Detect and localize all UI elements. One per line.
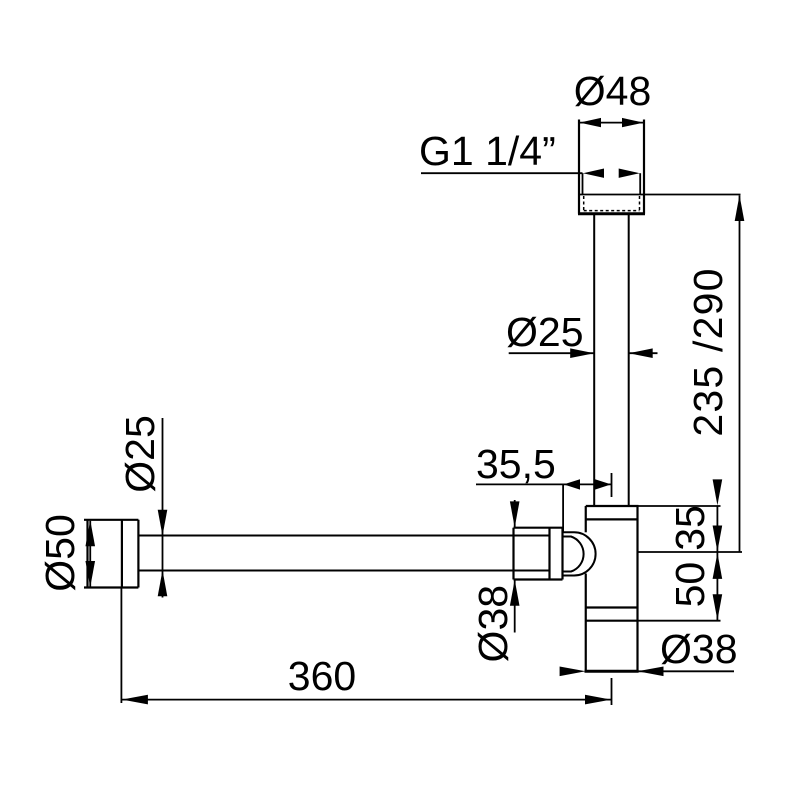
hidden thread (dashed) <box>584 196 640 211</box>
vertical inlet pipe <box>594 214 629 506</box>
dimension 35,5 <box>476 441 612 533</box>
dimension Ø25 (horizontal pipe, rotated label) <box>117 415 167 597</box>
flange shoulder line and 235/290 top extension line <box>579 194 741 196</box>
svg-text:G1 1/4”: G1 1/4” <box>419 128 556 174</box>
svg-text:35: 35 <box>667 505 713 551</box>
olive / elbow bulge into body <box>563 532 596 575</box>
compression nut at siphon inlet <box>514 528 563 580</box>
label G1 1/4" with leader <box>419 128 640 178</box>
svg-text:360: 360 <box>288 653 356 699</box>
dimension Ø50 (left flange, rotated label) <box>37 514 95 592</box>
dimension 360 <box>121 588 611 706</box>
svg-text:Ø38: Ø38 <box>660 626 738 672</box>
dimension Ø38 (inlet nut, rotated label) <box>470 500 520 662</box>
dimension Ø25 (vertical pipe) <box>506 309 658 358</box>
siphon body outline <box>585 506 639 672</box>
dimension Ø38 (bottom outlet) <box>560 626 738 676</box>
svg-text:235 /290: 235 /290 <box>685 267 731 436</box>
svg-text:Ø48: Ø48 <box>574 68 652 114</box>
svg-text:Ø38: Ø38 <box>470 585 516 663</box>
dimension 35 and 50 (right column) <box>667 479 722 620</box>
siphon body nut (top) <box>586 506 639 519</box>
dimension Ø48 <box>574 68 652 127</box>
flange inner thread walls <box>583 173 641 194</box>
wall flange (top escutcheon) <box>578 120 645 214</box>
svg-text:50: 50 <box>667 562 713 608</box>
right column extension lines <box>638 506 743 621</box>
svg-text:35,5: 35,5 <box>476 441 556 487</box>
svg-text:Ø50: Ø50 <box>37 514 83 592</box>
horizontal pipe <box>138 536 549 571</box>
svg-text:Ø25: Ø25 <box>506 309 584 355</box>
left wall flange <box>84 520 138 588</box>
svg-text:Ø25: Ø25 <box>117 415 163 493</box>
dimension 235/290 (right tall) <box>685 195 744 552</box>
